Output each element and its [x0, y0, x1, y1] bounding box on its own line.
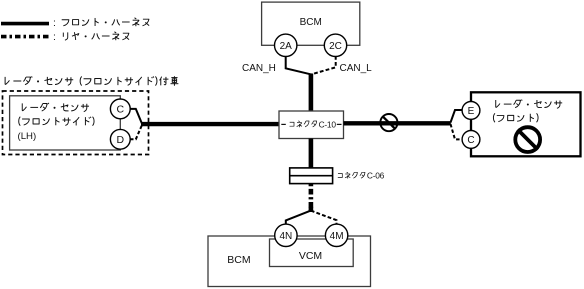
svg-text::: : — [53, 17, 56, 29]
wire junction to pin 4M (dashed) — [311, 211, 337, 225]
radar sensor (front) label line1 — [496, 100, 562, 109]
svg-text:4M: 4M — [330, 231, 344, 242]
no-connection symbol on wire — [380, 114, 397, 131]
radar sensor (front) box — [471, 92, 581, 156]
wire CAN_L from pin 2C (dashed) — [312, 50, 336, 74]
VCM box — [270, 239, 354, 267]
pin C (left sensor) — [110, 99, 130, 119]
pin D (left sensor) — [110, 129, 130, 149]
pin 2C — [324, 34, 346, 56]
connector C-10 label — [290, 119, 337, 129]
wire main right (thick) — [344, 121, 451, 125]
svg-text:C-10: C-10 — [319, 119, 337, 129]
svg-text:D: D — [117, 134, 125, 146]
legend front-harness label — [53, 17, 149, 29]
wire junction to pin E — [451, 110, 463, 123]
pin 4M — [325, 224, 347, 246]
svg-text:BCM: BCM — [300, 17, 322, 28]
pin C (front sensor) — [462, 131, 480, 149]
svg-text:VCM: VCM — [299, 250, 322, 262]
wire CAN_H from pin 2A — [286, 50, 311, 74]
radar sensor (front) label line2 — [493, 113, 538, 122]
svg-text:C: C — [467, 135, 474, 146]
svg-text:4N: 4N — [280, 231, 293, 242]
svg-text:2C: 2C — [329, 41, 342, 52]
legend rear-harness label — [53, 31, 129, 43]
radar sensor (front side) label line1 — [22, 103, 89, 112]
label radar-sensor-frontside equipped vehicles — [5, 76, 178, 86]
connector C-06 label — [338, 171, 385, 181]
dashed enclosure (frontside-equipped) — [3, 91, 149, 155]
pin 2A — [275, 34, 297, 56]
radar sensor (front side) (LH) box — [10, 96, 121, 150]
junction node below C-06 — [309, 207, 314, 212]
radar sensor (front side) label line2 — [19, 117, 94, 126]
BCM (bottom) box — [208, 236, 371, 287]
wire trunk BCM to C-10 (thick) — [309, 74, 314, 112]
svg-text:C-06: C-06 — [367, 171, 385, 181]
svg-text:BCM: BCM — [227, 254, 250, 266]
pin 4N — [275, 224, 297, 246]
legend rear-harness line — [1, 35, 49, 39]
connector C-06 symbol — [290, 168, 333, 184]
wire C-10 to C-06 (thick) — [309, 139, 314, 168]
wire junction to pin C (dashed) — [451, 124, 463, 139]
pin E (front sensor) — [462, 102, 480, 120]
prohibition symbol (no radar) — [515, 127, 540, 152]
svg-text:CAN_H: CAN_H — [242, 63, 276, 74]
svg-text:C: C — [117, 104, 125, 116]
legend front-harness line — [1, 22, 49, 26]
wire from pin C to junction — [130, 109, 142, 123]
BCM (top) box — [262, 2, 360, 45]
connector C-10 box — [279, 111, 344, 139]
wire junction to pin 4N — [286, 211, 311, 225]
svg-text:E: E — [468, 106, 475, 117]
wire main left (thick) — [141, 122, 279, 126]
connector C-10 tick left — [281, 123, 286, 125]
wire from pin D to junction (dashed) — [130, 125, 142, 139]
svg-text:2A: 2A — [280, 41, 293, 52]
svg-text:(LH): (LH) — [18, 131, 37, 142]
connector C-10 tick right — [337, 123, 342, 125]
svg-text::: : — [53, 31, 56, 43]
svg-text:CAN_L: CAN_L — [340, 63, 373, 74]
wire C-06 to junction (thick dash-dot) — [309, 184, 314, 212]
